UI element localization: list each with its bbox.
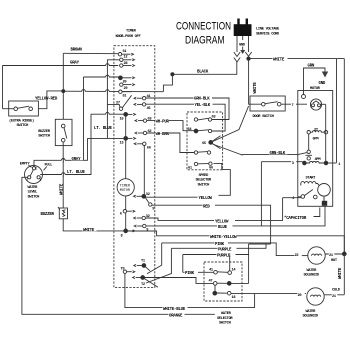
svg-text:PURPLE: PURPLE	[218, 248, 232, 252]
svg-text:7: 7	[292, 104, 294, 108]
svg-text:GRAY: GRAY	[72, 158, 82, 162]
label LINE VOLTAGE SERVICE CORD	[256, 28, 280, 37]
timer motor M1	[117, 179, 134, 196]
svg-text:GRN: GRN	[308, 65, 315, 69]
motor overload protector	[310, 99, 321, 110]
wire YELLOW-RED from extra rinse switch	[35, 91, 63, 109]
wire GRN-BLK from 65 to motor terminal 5	[212, 144, 297, 156]
timer node 8	[121, 229, 135, 239]
wire WHITE horizontal to right edge	[250, 56, 344, 63]
svg-text:2: 2	[26, 178, 28, 182]
wire WHITE from buzzer to timer node 8	[63, 219, 123, 233]
speed selector contact row3 right	[207, 151, 210, 154]
hop bump crossing on gray wire at descender	[106, 65, 109, 67]
wire WH-BRN from timer 62 to speed selector row3	[147, 130, 195, 152]
svg-text:SELECTOR: SELECTOR	[196, 179, 212, 183]
wire jog to solenoid HOT	[249, 244, 271, 255]
water solenoid COLD	[297, 288, 344, 305]
wire YELLOW 2 from timer 32b to motor terminal 4	[145, 198, 282, 225]
wire vertical bus x63 from BROWN down to buzzer switch	[62, 53, 64, 125]
motor start switch terminal 4	[292, 190, 318, 201]
svg-text:WATER: WATER	[28, 186, 39, 190]
label WATER SOLENOID cold	[303, 310, 319, 319]
svg-text:*CAPACITOR: *CAPACITOR	[284, 216, 307, 221]
extra rinse switch S1	[3, 101, 39, 116]
svg-text:66: 66	[209, 167, 213, 171]
svg-text:WHITE: WHITE	[273, 59, 285, 63]
svg-text:WHITE: WHITE	[60, 183, 64, 195]
svg-text:BUZZER: BUZZER	[38, 130, 51, 134]
wire timer bus motor to node 8	[125, 196, 127, 231]
speed selector contact row2 right	[208, 129, 211, 132]
wire motor protector to windings vertical	[325, 105, 327, 164]
timer node 32	[134, 193, 150, 203]
wire link motor terminal 3 to BLUE	[260, 162, 262, 226]
water level switch S3	[25, 166, 43, 184]
svg-text:47: 47	[209, 280, 213, 284]
svg-text:20: 20	[298, 294, 302, 298]
water solenoid HOT	[294, 247, 342, 264]
svg-text:SWITCH: SWITCH	[219, 322, 231, 326]
wire water selector 18 to cold solenoid	[231, 292, 306, 294]
wire speed selector 65 to door switch leg diagonal	[212, 106, 248, 142]
label WATER SOLENOID hot	[304, 269, 320, 278]
svg-text:SWITCH: SWITCH	[17, 124, 29, 128]
hop bump crossing on contact51 wire	[82, 91, 85, 93]
node BLACK corner junction	[171, 73, 174, 76]
motor start winding coil	[301, 182, 321, 187]
svg-text:GND: GND	[319, 82, 326, 86]
wire timer 12 descender to node 13	[107, 60, 119, 139]
wire BROWN	[63, 46, 118, 54]
svg-text:KNOB-PUSH OFF: KNOB-PUSH OFF	[116, 35, 141, 39]
timer contact 41	[134, 95, 151, 100]
motor speed selector contact internal	[306, 150, 322, 162]
label SPEED SELECTOR SWITCH	[196, 174, 212, 188]
svg-text:SOLENOID: SOLENOID	[304, 274, 320, 278]
speed selector node 64	[188, 128, 209, 133]
svg-text:9: 9	[152, 207, 154, 211]
hop bump crossing on lt blue wire at descender	[106, 113, 109, 115]
svg-text:BUZZER: BUZZER	[41, 213, 55, 217]
wire protector right arm	[321, 103, 326, 105]
motor box	[298, 91, 333, 207]
wire water selector 44 up to purple	[229, 255, 231, 271]
svg-text:RED: RED	[203, 205, 210, 209]
speed selector contact row1 left	[194, 118, 197, 121]
svg-text:GRN-BLK: GRN-BLK	[270, 152, 286, 156]
svg-text:66: 66	[147, 146, 151, 150]
svg-text:WHITE: WHITE	[254, 82, 258, 94]
timer node 15	[120, 113, 136, 122]
svg-text:WH-BRN: WH-BRN	[156, 133, 170, 137]
timer node 13	[120, 137, 136, 146]
timer node 20	[119, 76, 135, 85]
wire LT BLUE from water level switch to timer node 15	[40, 114, 123, 175]
svg-text:6: 6	[120, 213, 122, 217]
svg-text:WATER: WATER	[221, 312, 232, 316]
svg-text:SWITCH: SWITCH	[28, 195, 40, 199]
timer contact 27	[107, 95, 131, 110]
node solenoid junction right	[342, 252, 346, 256]
motor main winding row	[303, 161, 328, 165]
wire white down to cold solenoid	[343, 254, 345, 295]
svg-text:32: 32	[146, 193, 150, 197]
wire GRAY from water level switch to timer node 13	[34, 138, 88, 166]
title CONNECTION DIAGRAM	[176, 21, 231, 47]
wire white vertical from buzzer switch to buzzer	[62, 142, 64, 208]
wire from left border to timer (GRAY row)	[3, 65, 119, 67]
wire motor 2T left down to speed contact	[308, 134, 310, 150]
speed selector contact 61	[188, 162, 209, 170]
timer contact T1	[134, 260, 150, 271]
svg-text:SPEED: SPEED	[199, 174, 210, 178]
svg-text:4: 4	[40, 178, 42, 182]
speed selector contact 66	[209, 162, 213, 171]
svg-text:T9: T9	[121, 267, 125, 271]
label BUZZER SWITCH	[38, 130, 51, 139]
wire node20 feed	[84, 76, 119, 78]
svg-text:BLACK: BLACK	[197, 71, 209, 75]
timer contact 32b	[134, 215, 150, 220]
svg-text:LT. BLUE: LT. BLUE	[94, 127, 112, 131]
water selector node 47 right	[227, 282, 248, 286]
wire WHITE right-edge vertical down to solenoid node	[343, 59, 345, 254]
label WATER LEVEL SWITCH	[28, 186, 40, 200]
wire PURPLE 1	[146, 244, 266, 283]
svg-text:SOLENOID: SOLENOID	[303, 315, 319, 319]
svg-text:WH-PUR: WH-PUR	[156, 121, 170, 125]
svg-text:DIAGRAM: DIAGRAM	[185, 35, 225, 47]
wire PINK from T1 throw up to pink row	[147, 240, 302, 274]
water selector bottom node	[213, 291, 227, 295]
label EMPTY	[20, 162, 32, 167]
svg-text:GRN-BLK: GRN-BLK	[194, 97, 210, 101]
svg-text:BROWN: BROWN	[71, 49, 83, 53]
timer contact 51	[119, 90, 132, 98]
hop bump crossing on contact51 wire at descender	[106, 91, 109, 93]
svg-text:START: START	[306, 177, 317, 181]
wire ORANGE from water level switch terminal 2 along bottom	[22, 177, 215, 318]
speed selector switch box dashed	[187, 112, 223, 170]
svg-text:WHITE-BLUE: WHITE-BLUE	[163, 308, 186, 312]
timer contact 29	[120, 83, 135, 91]
wire motor terminal 5 entry	[298, 153, 307, 155]
wire white node to door switch	[249, 60, 262, 104]
wire GRN motor ground	[304, 65, 326, 95]
node yellow-red junction	[62, 90, 65, 93]
svg-text:MOTOR: MOTOR	[310, 87, 321, 91]
svg-text:22: 22	[295, 254, 299, 258]
buzzer BZ1	[58, 207, 68, 219]
water selector contact 47	[209, 280, 228, 286]
svg-text:WHITE: WHITE	[339, 267, 343, 279]
svg-text:PINK: PINK	[185, 272, 195, 276]
svg-text:1: 1	[36, 167, 38, 171]
ground GND cord symbol	[239, 36, 246, 54]
wire door switch to motor terminal 7	[281, 102, 307, 109]
svg-text:YELLOW: YELLOW	[199, 197, 213, 201]
wire timer 66 down to node 32	[143, 146, 145, 195]
svg-text:BLUE: BLUE	[218, 226, 228, 230]
label GRAY upper	[70, 59, 81, 66]
wire WHITE-BLUE from T9	[125, 273, 255, 311]
wire WHITE plug leg with arrowheads	[245, 36, 251, 56]
timer contact 66	[134, 142, 151, 150]
timer contact 61	[118, 50, 133, 56]
timer contact 62	[135, 130, 151, 135]
svg-text:YEL-BLK: YEL-BLK	[195, 104, 211, 108]
svg-text:SWITCH: SWITCH	[198, 183, 210, 187]
timer contact T9	[121, 267, 135, 273]
ground GND motor arrow symbol	[319, 72, 329, 87]
speed selector contact row3 left	[194, 151, 207, 154]
svg-text:LINE VOLTAGE: LINE VOLTAGE	[256, 28, 280, 32]
capacitor connection square	[322, 196, 327, 206]
svg-text:12: 12	[124, 56, 128, 60]
motor main rotor circle	[318, 184, 331, 197]
label LT. BLUE upper	[94, 124, 114, 131]
wire BLACK plug leg with arrowheads	[234, 36, 240, 62]
plug P1 line cord	[234, 19, 252, 37]
timer box dashed enclosure	[114, 46, 155, 288]
wire YEL-BLK from timer 45 to speed selector row2	[146, 101, 225, 131]
wire timer bus node15 to node13 to timer motor	[125, 114, 127, 178]
hop bump crossing on node20 wire at descender	[106, 76, 109, 78]
speed selector contact 63 right	[198, 116, 217, 122]
svg-text:DOOR SWITCH: DOOR SWITCH	[253, 115, 274, 119]
svg-text:27: 27	[116, 101, 120, 105]
water selector contact 41	[209, 269, 228, 274]
svg-text:WHITE: WHITE	[83, 229, 95, 233]
wire RED from contact 9a	[152, 203, 271, 244]
wire BLUE from timer 9b to capacitor	[146, 206, 325, 230]
water selector contact 44	[228, 268, 237, 274]
wire GRAY horizontal into node 13	[88, 137, 124, 139]
timer contact 45	[134, 103, 151, 111]
wire water selector 47 to bottom node	[214, 285, 216, 291]
wire motor terminal 4 stub	[283, 197, 301, 199]
buzzer switch S2	[55, 119, 72, 145]
svg-text:WHITE-YELLOW: WHITE-YELLOW	[210, 236, 237, 240]
wire PINK 2 to water selector 41	[183, 270, 214, 277]
svg-text:WATER: WATER	[307, 269, 318, 273]
svg-text:MOTOR: MOTOR	[120, 189, 130, 193]
timer contact 28	[120, 62, 135, 67]
label CAPACITOR with leader	[284, 208, 320, 222]
wire YELLOW from node 32 to speed selector 66	[146, 163, 231, 201]
svg-text:29: 29	[124, 87, 128, 91]
label WATER SELECTOR SWITCH	[217, 312, 233, 326]
label EXTRA RINSE SWITCH	[9, 118, 34, 128]
timer contact 6	[120, 210, 135, 217]
wire feed to timer contact 51	[63, 90, 163, 93]
hop bump GRAY over white bus	[62, 160, 65, 162]
door switch S4	[250, 96, 285, 111]
wire vertical x83 from node20 wire to water level switch GRAY row	[83, 77, 85, 160]
svg-text:SWITCH: SWITCH	[38, 135, 50, 139]
svg-text:ORANGE: ORANGE	[169, 315, 183, 319]
wire WH-PUR from timer 63 to speed selector 64	[147, 118, 195, 131]
wire PURPLE 2	[143, 252, 249, 287]
timer contact 9b	[134, 224, 148, 232]
svg-text:LEVEL: LEVEL	[28, 191, 39, 195]
wire vertical continuity patches under hops	[63, 64, 107, 177]
svg-text:LT. BLUE: LT. BLUE	[67, 171, 85, 175]
water selector contact 18	[227, 291, 236, 299]
svg-text:GRAY: GRAY	[70, 61, 80, 65]
wire motor terminal 1 exit	[328, 163, 342, 167]
wire WHITE-YELLOW from node 8 to solenoid node	[128, 231, 345, 252]
svg-text:CONNECTION: CONNECTION	[176, 21, 231, 33]
timer contact T2	[133, 276, 145, 287]
svg-text:PURPLE: PURPLE	[217, 255, 231, 259]
wire GRN-BLK from timer 41 to speed selector 63	[146, 95, 229, 120]
wire left border vertical	[2, 66, 4, 109]
node WHITE junction	[247, 57, 250, 60]
svg-text:TIMER: TIMER	[126, 30, 137, 34]
label FULL	[44, 164, 54, 171]
svg-text:SELECTOR: SELECTOR	[217, 317, 233, 321]
water selector switch box dashed	[204, 262, 242, 301]
speed selector node 65	[202, 136, 221, 149]
svg-text:(EXTRA RINSE): (EXTRA RINSE)	[9, 118, 34, 123]
label TIMER KNOB-PUSH OFF	[116, 30, 141, 39]
svg-text:SERVICE CORD: SERVICE CORD	[256, 33, 280, 37]
svg-text:WATER: WATER	[306, 310, 317, 314]
timer contact 9a	[149, 203, 155, 212]
wire BLACK	[163, 62, 236, 92]
wire WHITE branch down to motor terminal 1	[336, 59, 338, 163]
wire T2 to water selector 47	[145, 278, 214, 284]
svg-text:COLD: COLD	[332, 289, 341, 293]
motor speed winding 2T	[307, 129, 328, 142]
motor ground terminal	[302, 95, 306, 99]
timer contact 12	[120, 56, 135, 62]
svg-text:T2: T2	[141, 283, 145, 287]
wire motor terminal 3 entry	[261, 159, 302, 166]
timer contact 63	[135, 118, 152, 123]
